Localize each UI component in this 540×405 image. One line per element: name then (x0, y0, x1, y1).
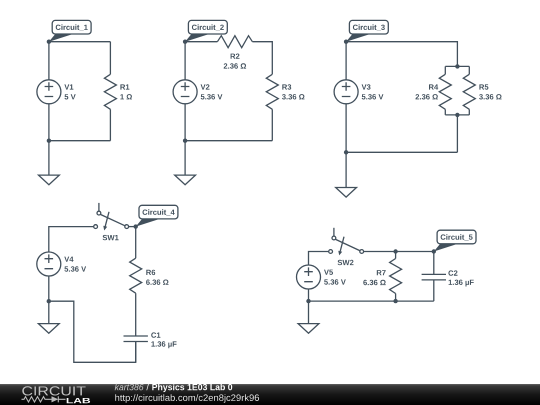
node bottom junction (344, 150, 348, 154)
wire bottom (49, 140, 111, 142)
wire R3 bottom lead (271, 109, 273, 140)
wire switch to node (129, 226, 136, 228)
footer user name (115, 384, 144, 391)
wire ground stem (48, 301, 50, 323)
footer separator (146, 384, 149, 391)
wire ground stem (184, 141, 186, 175)
footer title (152, 384, 232, 392)
wire switch to C2 node (364, 251, 434, 253)
resistor R7 (390, 259, 402, 294)
wire ground stem (345, 152, 347, 187)
node parallel top junction (455, 64, 459, 68)
wire ground stem (48, 141, 50, 175)
voltage source V4 (37, 252, 61, 276)
ground (175, 175, 196, 185)
resistor R5 (463, 74, 475, 109)
label callout Circuit_3 (346, 34, 370, 42)
node bottom junction (47, 299, 51, 303)
wire V2 top lead (184, 42, 186, 80)
node bottom junction (47, 139, 51, 143)
node V5 bottom junction (306, 299, 310, 303)
label callout Circuit_5 (434, 244, 458, 252)
wire bottom (185, 140, 272, 142)
wire bottom (346, 151, 457, 153)
capacitor C2 (433, 252, 435, 275)
wire bottom return to C1 (49, 301, 136, 362)
wire bank bottom bus (445, 114, 469, 116)
node R7 bottom junction (393, 299, 397, 303)
wire top (346, 42, 457, 67)
wire R6 to C1 (135, 293, 137, 336)
wire ground stem (308, 301, 310, 324)
wire V1 bottom lead (48, 104, 50, 141)
logo CIRCUIT wordmark (22, 386, 85, 395)
ground (298, 324, 319, 334)
label callout Circuit_4 (136, 219, 160, 227)
wire V3 bottom lead (345, 104, 347, 153)
wire V3 top lead (345, 42, 347, 80)
voltage source V3 (334, 80, 358, 104)
voltage source V1 (37, 80, 61, 104)
wire R7 bottom lead (395, 294, 397, 302)
resistor R6 (130, 258, 142, 293)
switch SW1 (98, 203, 100, 211)
wire bank bottom feed (456, 115, 458, 152)
wire V4 bottom lead (48, 276, 50, 301)
footer url (115, 394, 259, 403)
resistor R4 (439, 74, 451, 109)
ground (336, 188, 357, 198)
wire R1 top lead (109, 42, 111, 75)
wire R6 top lead (135, 227, 137, 259)
node R7 top junction (393, 249, 397, 253)
label callout Circuit_2 (185, 34, 209, 42)
wire top left (185, 41, 217, 43)
wire bank top bus (445, 65, 469, 67)
voltage source V2 (173, 80, 197, 104)
resistor R3 (266, 74, 278, 109)
label callout Circuit_1 (49, 34, 73, 42)
ground (39, 175, 60, 185)
node parallel bottom junction (455, 113, 459, 117)
resistor R2 (horizontal) (217, 36, 252, 48)
wire bottom bus (309, 300, 434, 302)
ground (38, 324, 59, 334)
wire V4 top lead to switch (49, 227, 94, 252)
node Circuit_4 (junction dot) (134, 224, 138, 228)
wire R4 bottom stub (444, 109, 446, 115)
node Circuit_2 (junction dot) (183, 40, 187, 44)
logo diode symbol (52, 396, 59, 402)
wire R4 top stub (444, 66, 446, 74)
node Circuit_1 (junction dot) (47, 40, 51, 44)
resistor R1 (104, 74, 116, 109)
logo LAB text (67, 398, 90, 403)
switch SW2 (333, 228, 335, 236)
wire R7 top lead (395, 252, 397, 259)
voltage source V5 (297, 265, 321, 289)
wire R1 bottom lead (109, 109, 111, 140)
node Circuit_5 (junction dot) (432, 249, 436, 253)
wire V5 bottom lead (308, 289, 310, 301)
wire R5 top stub (468, 66, 470, 74)
wire R5 bottom stub (468, 109, 470, 115)
node Circuit_3 (junction dot) (344, 40, 348, 44)
logo resistor zigzag (22, 397, 52, 402)
wire V5 top lead to switch (309, 252, 329, 266)
capacitor C1 (124, 335, 148, 337)
wire V1 top lead (48, 42, 50, 80)
wire top right (252, 42, 272, 75)
wire V2 bottom lead (184, 104, 186, 141)
node bottom junction (183, 139, 187, 143)
wire top (49, 41, 111, 43)
